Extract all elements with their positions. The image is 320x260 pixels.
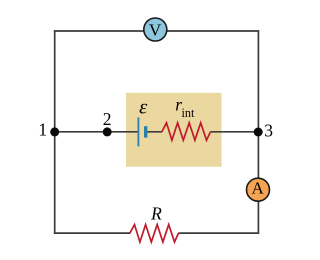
node 1 junction dot [50,127,59,136]
wire: right side of loop [257,30,259,234]
svg-text:1: 1 [38,120,47,140]
svg-text:R: R [150,204,162,224]
wire: middle branch, battery to r_int [146,131,162,133]
wire: middle branch, r_int to node 3 [210,131,258,133]
node 2 junction dot [103,127,112,136]
svg-text:ε: ε [139,97,148,119]
wire: middle branch, node 1 to battery [55,131,139,133]
node 3 junction dot [254,128,263,137]
svg-text:3: 3 [264,121,273,141]
svg-text:2: 2 [103,109,112,129]
svg-text:A: A [252,178,265,197]
wire: top side of loop [54,30,259,32]
svg-text:int: int [182,106,195,120]
resistor R zigzag [130,225,179,242]
svg-text:V: V [149,21,162,40]
wire: left side of loop [54,30,56,234]
battery internal highlight box [126,93,222,167]
battery emf source (plates) [138,117,145,146]
resistor r_int zigzag [162,123,211,140]
wire: bottom side left segment [54,232,130,234]
voltmeter V [144,18,167,41]
wire: bottom side right segment [178,232,259,234]
ammeter A [247,178,270,201]
